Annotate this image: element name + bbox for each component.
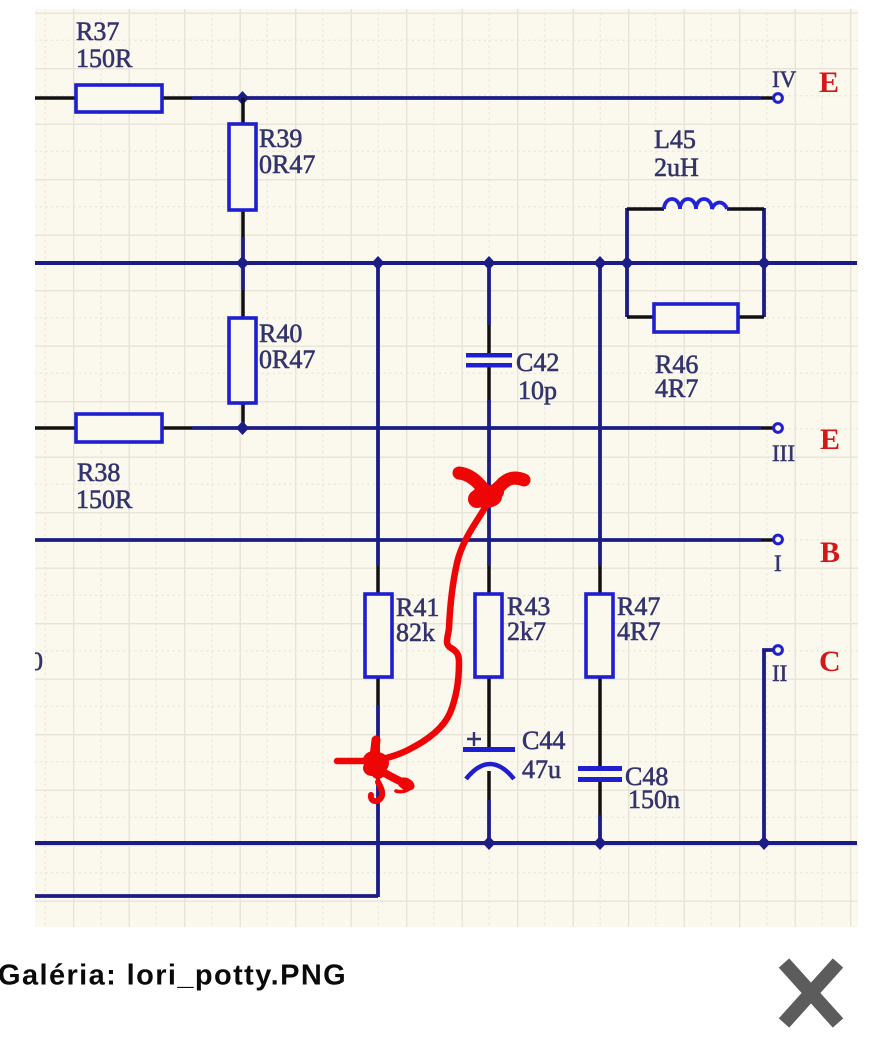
svg-text:C42: C42 xyxy=(516,348,559,377)
red annotation scribble 2 (arrow knot) xyxy=(337,740,417,801)
main bus wire y=263 xyxy=(35,261,857,265)
wire L45 loop right vertical xyxy=(762,208,766,317)
close button X icon xyxy=(784,963,838,1023)
svg-text:0R47: 0R47 xyxy=(259,150,315,179)
resistor R40 xyxy=(229,318,256,403)
wire B-I rail y=540 xyxy=(35,538,761,542)
svg-text:R40: R40 xyxy=(259,319,302,348)
port E III terminal circle xyxy=(774,424,783,433)
svg-text:Galéria: lori_potty.PNG: Galéria: lori_potty.PNG xyxy=(0,960,347,992)
svg-text:II: II xyxy=(772,661,787,686)
junction bus/R41 column xyxy=(372,256,385,270)
svg-text:150R: 150R xyxy=(76,44,133,73)
capacitor C48 xyxy=(578,766,622,782)
junction bottom bus/port C column xyxy=(758,836,771,850)
capacitor C44 polarized xyxy=(463,732,515,779)
resistor R41 xyxy=(365,594,392,677)
resistor R37 xyxy=(76,85,162,112)
port B I terminal circle xyxy=(774,535,783,544)
svg-text:R39: R39 xyxy=(259,124,302,153)
svg-text:10p: 10p xyxy=(518,376,557,405)
junction bus/R39-R40 xyxy=(236,256,249,270)
wire L45 top right stub xyxy=(727,207,764,211)
svg-text:150R: 150R xyxy=(76,485,133,514)
bottom return wire y=896 xyxy=(35,894,378,898)
svg-text:E: E xyxy=(819,66,839,99)
svg-text:R38: R38 xyxy=(77,458,120,487)
inductor L45 coil xyxy=(664,199,727,209)
resistor R39 xyxy=(229,124,256,210)
svg-text:L45: L45 xyxy=(654,125,696,154)
svg-text:0R47: 0R47 xyxy=(259,345,315,374)
port C II terminal circle and wire xyxy=(764,646,782,843)
port E IV terminal circle xyxy=(774,94,783,103)
svg-text:82k: 82k xyxy=(396,618,435,647)
svg-text:150n: 150n xyxy=(628,785,680,814)
wire C42/R43 column xyxy=(487,263,491,843)
svg-text:IV: IV xyxy=(772,67,797,92)
red annotation scribble 1 (bird shape) xyxy=(459,473,524,508)
wire R41 column xyxy=(376,263,380,897)
svg-text:2k7: 2k7 xyxy=(507,617,546,646)
resistor R38 xyxy=(76,414,162,442)
junction bus/R47 column xyxy=(594,256,607,270)
capacitor C42 xyxy=(466,353,512,368)
svg-text:2uH: 2uH xyxy=(654,153,699,182)
junction bus/C42 column xyxy=(483,256,496,270)
svg-text:E: E xyxy=(820,423,840,456)
resistor R46 xyxy=(654,304,738,332)
junction bottom bus/C44 column xyxy=(483,836,496,850)
junction at R37/R39 node xyxy=(236,91,249,105)
wire L45 top left stub xyxy=(627,207,664,211)
junction bottom bus/C48 column xyxy=(594,836,607,850)
svg-text:I: I xyxy=(774,551,782,576)
resistor R47 xyxy=(586,594,613,677)
red annotation connecting curve xyxy=(376,506,486,760)
wire R39 column xyxy=(241,98,245,428)
wire B-I black stub xyxy=(761,538,773,542)
svg-text:C: C xyxy=(819,645,841,678)
junction bus/L45 right xyxy=(758,256,771,270)
svg-text:4R7: 4R7 xyxy=(655,374,698,403)
svg-text:R37: R37 xyxy=(76,17,119,46)
resistor R43 xyxy=(475,594,502,677)
wire R46 right stub xyxy=(737,315,764,319)
wire L45 loop left vertical xyxy=(625,208,629,317)
svg-text:C44: C44 xyxy=(522,726,565,755)
svg-text:B: B xyxy=(820,536,840,569)
wire E-IV horizontal rail y=98 xyxy=(35,96,773,100)
wire R47/C48 column xyxy=(598,263,602,843)
wire R46 left stub xyxy=(627,315,654,319)
svg-text:47u: 47u xyxy=(522,755,561,784)
svg-text:III: III xyxy=(772,441,795,466)
bottom bus wire y=843 xyxy=(35,841,857,845)
junction bus/L45 left xyxy=(621,256,634,270)
wire E-III rail y=428 xyxy=(35,426,773,430)
svg-text:4R7: 4R7 xyxy=(617,617,660,646)
junction R40 bottom / E-III rail xyxy=(236,421,249,435)
